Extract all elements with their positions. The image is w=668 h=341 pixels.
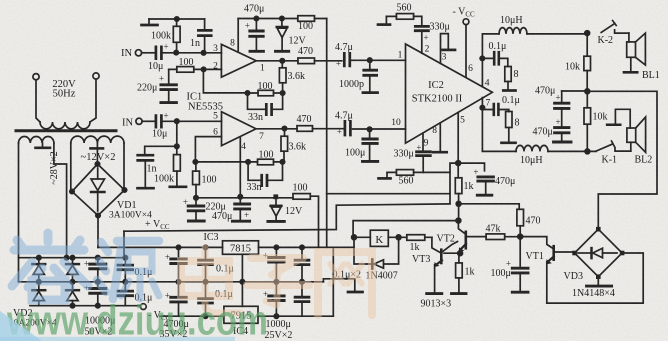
capacitor 100u (VT1 base) — [519, 237, 521, 267]
watermark orange char 3 — [318, 252, 372, 315]
capacitor 220u (ch1) — [168, 69, 170, 83]
watermark corner blob — [0, 311, 42, 341]
resistor 100 (ch1 inverting input) — [169, 68, 222, 70]
wire regulator center column — [241, 254, 243, 306]
wire VD3 loop box — [547, 253, 643, 303]
speaker BL2 — [607, 123, 620, 126]
wire pin3 jog to ground — [441, 34, 449, 64]
rail A +Vcc — [124, 204, 450, 231]
watermark blue char 1 — [12, 233, 88, 300]
resistor 100k (ch1 bias) — [176, 19, 178, 53]
node relay feed junction — [456, 201, 461, 206]
diode 1N4007 (relay) — [354, 237, 372, 264]
wire pin8 to 12V rail — [237, 19, 239, 53]
capacitor 0.1u c — [205, 247, 207, 259]
node VD2 rails — [37, 256, 41, 260]
wire to IC2 pin1 — [352, 59, 406, 61]
capacitor 0.1u (ch1 zobel) — [482, 58, 508, 66]
wire regulator bottom rail — [160, 315, 333, 317]
wire bias top rail — [149, 18, 205, 20]
capacitor 4.7u (ch2 coupling) — [345, 121, 351, 135]
capacitor 0.1u a (VD2) — [124, 258, 126, 264]
resistor 47k — [486, 234, 505, 240]
wire op-amp2 output — [256, 128, 297, 130]
wire input2 to cap — [142, 120, 154, 122]
wire node to 470 resistor — [459, 204, 520, 210]
bridge VD3 — [575, 229, 623, 277]
resistor 100 (12V dropper ch1) — [298, 16, 315, 22]
capacitor 4.7u (ch1 coupling) — [344, 53, 350, 66]
capacitor C 10u (ch2) — [156, 116, 162, 128]
capacitor 330u (ch2 pin9) — [422, 133, 424, 151]
op-amp U1b — [222, 112, 257, 146]
resistor 10k (lower) — [586, 91, 588, 151]
wire mid node to right edge — [562, 91, 657, 227]
input terminal 2 — [136, 118, 142, 124]
wire input2 bias drop — [176, 121, 178, 146]
transistor VT2 — [458, 221, 465, 234]
transformer T1 core — [16, 129, 116, 132]
wire 12V right to VD1 — [123, 143, 125, 190]
power amp IC2 — [406, 44, 493, 143]
watermark orange char 2 — [247, 258, 309, 305]
wire 28V right to VD2 — [54, 143, 67, 258]
wire input to cap — [142, 52, 154, 54]
wire VD1 minus to rail B — [97, 216, 99, 248]
transistor VT1 — [520, 237, 553, 249]
wire op-amp1 output — [256, 60, 298, 62]
wire right loop vertical — [332, 247, 334, 316]
diode VD2 a — [38, 258, 40, 264]
relay K — [370, 230, 388, 246]
wire ch1 feedback to pin2 — [203, 69, 247, 93]
transformer T1 secondary 28V winding — [19, 137, 54, 144]
wire long vertical 12V feed — [326, 19, 328, 248]
capacitor 1000u a — [275, 247, 277, 256]
wire branch to relay node — [327, 193, 450, 195]
capacitor 10000u b — [97, 282, 99, 288]
wire VD2 top rail — [19, 257, 125, 259]
wire rail A down to VD2 bank — [123, 231, 125, 258]
wire 12V left to VD1 — [70, 143, 72, 192]
wire pin4 to -12V rail — [239, 137, 241, 197]
zener diode 12V (ch2) — [275, 199, 277, 205]
node rail B dots — [176, 245, 180, 249]
resistor 8 (ch1 zobel) — [505, 67, 511, 82]
watermark orange char 1 — [181, 248, 240, 313]
capacitor 0.1u b (VD2) — [124, 282, 126, 290]
switch K-2 — [601, 21, 616, 33]
wire coil to K-2 node — [527, 33, 587, 35]
op-amp U1a — [221, 44, 256, 77]
resistor 1k (from -Vcc) — [457, 163, 459, 204]
regulator IC4 7915 — [224, 306, 258, 323]
resistor 470 (ch1 output) — [298, 58, 315, 64]
watermark blue char 2 — [97, 241, 159, 299]
node K-2 junction — [585, 31, 590, 36]
wire 12V rail — [238, 18, 327, 20]
capacitor 1000u b — [275, 282, 277, 295]
resistor 560 (ch1) — [385, 16, 387, 23]
wire relay top feed — [353, 221, 458, 238]
node middle rail dots — [176, 280, 180, 284]
capacitor 330u (ch1 bootstrap) — [415, 26, 428, 30]
diode VD2 b — [38, 282, 40, 290]
wire VD2 bottom rail — [30, 305, 140, 307]
input terminal 1 — [135, 50, 141, 56]
resistor 10k (upper) — [586, 33, 588, 91]
wire pin6 feedback — [195, 137, 221, 162]
wire 0V rail to ground stub — [323, 279, 354, 290]
bridge rectifier VD1 — [72, 164, 125, 216]
wire 100ohm drop to rail B — [310, 196, 318, 247]
inductor 10uH (ch2) — [516, 145, 548, 151]
transistor VT3 — [432, 237, 440, 252]
inductor 10uH (ch1) — [499, 28, 527, 34]
resistor 470 (VT1 feed) — [517, 209, 524, 226]
wire node down to VT2 base — [458, 204, 460, 221]
wire input2 node to pin5 — [163, 120, 222, 122]
wire pin4 up to output node ch1 — [482, 34, 499, 87]
diode VD2 c — [72, 258, 74, 264]
resistor 470 (ch2 output) — [297, 126, 313, 132]
terminal -Vcc (supply) — [140, 304, 146, 310]
node VT1 base junction — [518, 234, 523, 239]
capacitor 470u x2 (bridge) — [561, 91, 563, 102]
wire to IC2 pin10 — [353, 128, 406, 130]
wire VD2 middle rail (0V) — [19, 281, 324, 283]
wire input node to pin3 — [163, 52, 222, 54]
capacitor 0.1u (ch2 zobel) — [482, 110, 508, 112]
ground (bias rail) — [148, 19, 150, 24]
capacitor 4700u b — [178, 282, 180, 296]
wire pin8 to ground — [439, 123, 441, 151]
wire pin5 down — [457, 113, 459, 162]
resistor 1k (VT2 emitter) — [458, 253, 460, 292]
wire feedback line ch2 — [195, 161, 248, 163]
wire pin7 down — [481, 98, 483, 108]
wire -Vcc to pin6 — [465, 25, 467, 77]
resistor 560 (ch2) — [387, 172, 396, 177]
zener diode 12V (ch1) — [281, 19, 283, 27]
speaker BL1 — [628, 33, 630, 42]
wire pin7 to ch2 coil — [482, 108, 516, 152]
capacitor 33n (ch1 feedback) — [248, 93, 283, 109]
capacitor 470u (-Vcc filter) — [458, 163, 484, 171]
node mid junction — [585, 89, 590, 94]
resistor 1k (VT3 base) — [399, 236, 432, 238]
capacitor 4700u a — [178, 247, 180, 257]
capacitor 100u (ch2 input) — [369, 129, 371, 138]
diode VD2 d — [72, 282, 74, 290]
capacitor 1000p — [369, 60, 371, 69]
switch K-1 — [596, 141, 614, 151]
transformer T1 primary — [36, 79, 96, 122]
node pin5 -Vcc junction — [456, 161, 461, 166]
resistor 8 (ch2 zobel) — [506, 112, 512, 128]
capacitor 220u (ch2) — [195, 198, 197, 205]
mains terminal L — [33, 74, 39, 80]
capacitor 0.1u e — [205, 282, 207, 298]
capacitor 1n (ch2) — [145, 146, 177, 154]
wire center tap to VD1 top — [96, 150, 98, 164]
wire coil2 to K-1 node — [548, 150, 596, 152]
resistor 100 (ch2 feedback) — [248, 161, 282, 163]
capacitor C 10u (ch1) — [156, 47, 162, 59]
transformer T1 secondary 12V winding — [71, 136, 124, 143]
resistor 100 (ch2 -12V dropper horizontal) — [293, 194, 310, 200]
capacitor 470u (ch2) — [239, 197, 241, 203]
wire 28V left to VD2 — [18, 143, 20, 282]
resistor 100k (ch2 bias) — [176, 146, 178, 185]
capacitor 33n (ch2 feedback) — [248, 162, 282, 180]
wire -12V rail ch2 — [196, 197, 293, 199]
capacitor 0.1u d — [301, 247, 303, 259]
wire pin5 node jog down — [450, 163, 458, 204]
resistor 100 (ch2 -12V dropper vertical) — [195, 162, 197, 198]
mains terminal N — [93, 73, 99, 79]
resistor 3.6k (ch1 feedback) — [281, 61, 283, 93]
paper texture — [0, 0, 1, 1]
capacitor 1n (ch1) — [204, 19, 206, 53]
resistor 100 (ch1 feedback) — [248, 92, 283, 94]
secondary 12V center tap — [96, 143, 98, 147]
capacitor 10000u a — [97, 258, 99, 263]
secondary 28V center tap — [42, 143, 44, 147]
resistor 3.6k (ch2 feedback) — [283, 129, 286, 162]
rail B unregulated to 7815 — [98, 246, 354, 248]
capacitor 470u (12V rail ch1) — [255, 19, 257, 31]
node K-1 junction — [585, 149, 590, 154]
capacitor 0.1u f — [301, 282, 303, 296]
terminal -Vcc (top) — [463, 19, 469, 25]
